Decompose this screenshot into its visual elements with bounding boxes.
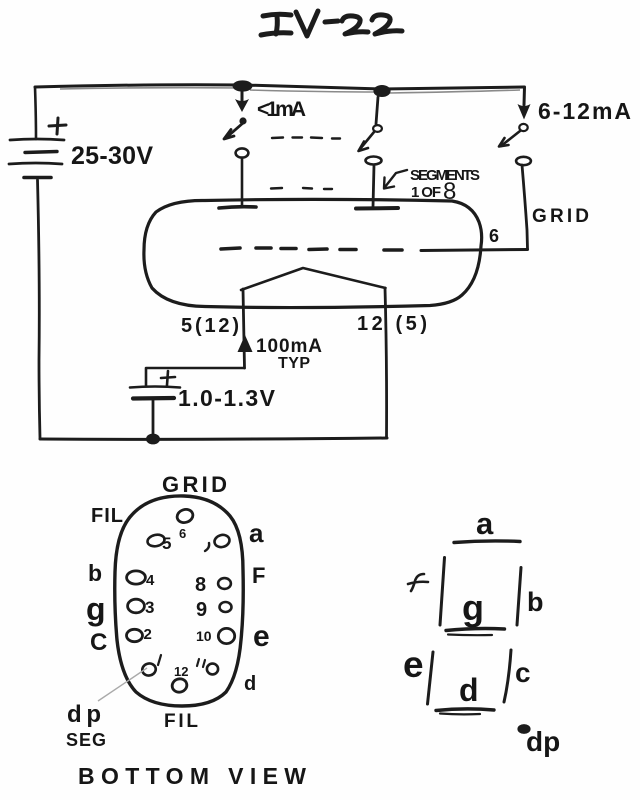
svg-text:4: 4 xyxy=(146,572,155,589)
svg-text:GRID: GRID xyxy=(532,206,589,227)
svg-text:GRID: GRID xyxy=(162,472,227,497)
svg-text:c: c xyxy=(515,657,531,688)
wire: segment pin into tube xyxy=(373,165,374,207)
svg-text:FIL: FIL xyxy=(91,505,123,527)
wire: left vertical from battery - down to bottom bus xyxy=(38,180,41,438)
terminal: anode pin top circle xyxy=(236,148,249,157)
grid mesh dashed line in tube xyxy=(221,248,402,250)
svg-text:dp: dp xyxy=(67,701,101,728)
wire: bottom bus xyxy=(40,438,387,439)
pin 11 circle xyxy=(207,664,218,675)
socket oval bottom view xyxy=(115,496,244,706)
segment e bar xyxy=(428,652,434,704)
svg-text:dp: dp xyxy=(526,726,560,757)
svg-text:5(12): 5(12) xyxy=(181,315,239,337)
battery B2 plate long xyxy=(130,387,180,388)
wire: filament pin 12 down xyxy=(385,288,387,438)
svg-text:<1mA: <1mA xyxy=(257,98,306,121)
pin 11 ticks xyxy=(197,659,199,666)
wire: left vertical from top bus to battery + plate xyxy=(35,87,36,139)
pin 7 circle xyxy=(213,533,231,549)
wire: top bus from battery + to grid switch xyxy=(35,85,524,89)
filament V xyxy=(241,268,386,290)
switch S2 pivot circle xyxy=(373,125,382,132)
svg-text:12: 12 xyxy=(174,664,188,679)
pin 3 circle xyxy=(128,599,145,613)
switch S2 blade with arrowhead xyxy=(360,132,374,149)
svg-text:g: g xyxy=(86,591,106,627)
segment a bar xyxy=(454,541,520,543)
svg-text:6-12mA: 6-12mA xyxy=(538,98,631,124)
tube envelope IV-22 xyxy=(144,199,482,307)
svg-text:F: F xyxy=(252,563,265,588)
svg-text:e: e xyxy=(403,644,424,685)
dp dot xyxy=(517,724,530,734)
svg-text:g: g xyxy=(462,587,484,628)
svg-text:1 OF: 1 OF xyxy=(411,184,441,201)
pin 12 circle xyxy=(171,677,189,694)
segment d bar xyxy=(436,709,494,711)
svg-text:FIL: FIL xyxy=(164,711,198,732)
switch S3 blade with arrowhead xyxy=(501,131,520,146)
terminal: segment pin top ellipse xyxy=(366,157,382,165)
battery B1 plate short xyxy=(25,152,57,153)
svg-text:d: d xyxy=(244,673,256,695)
svg-text:1.0-1.3V: 1.0-1.3V xyxy=(178,385,276,411)
segment c bar xyxy=(504,650,511,702)
node: junction on top bus at anode switch xyxy=(233,80,253,91)
label f seg xyxy=(408,574,428,591)
dashed row lower (other segments) xyxy=(271,188,332,189)
current arrow 100mA xyxy=(238,335,253,352)
svg-text:a: a xyxy=(476,506,494,541)
svg-text:12 (5): 12 (5) xyxy=(357,313,427,335)
anode segment bar 1 xyxy=(219,207,256,208)
pin 5 circle xyxy=(146,533,165,548)
svg-text:BOTTOM VIEW: BOTTOM VIEW xyxy=(78,763,306,789)
svg-text:10: 10 xyxy=(196,628,212,644)
svg-text:8: 8 xyxy=(443,178,456,205)
switch S3 pivot circle xyxy=(519,124,527,131)
svg-text:2: 2 xyxy=(144,626,152,643)
battery B1 plate long xyxy=(9,163,62,164)
battery B2 plus xyxy=(161,371,175,385)
pin 1 circle xyxy=(141,662,157,677)
svg-text:9: 9 xyxy=(196,599,207,621)
wire: anode pin into tube xyxy=(241,158,244,206)
pointer line dp to pin 1 xyxy=(98,668,147,701)
svg-text:6: 6 xyxy=(179,526,186,541)
pin 6 circle xyxy=(175,507,194,524)
segment f bar xyxy=(440,558,445,626)
svg-text:5: 5 xyxy=(162,534,171,553)
pin 8 circle xyxy=(218,578,231,589)
node: junction on top bus at segment switch xyxy=(373,85,390,97)
switch S1 blade with arrowhead xyxy=(227,123,243,137)
svg-text:e: e xyxy=(253,620,270,653)
battery B1 plate short bottom xyxy=(24,176,51,180)
wire: battery B2 - to bottom bus xyxy=(152,400,155,438)
battery B1 plate long top xyxy=(10,139,64,140)
svg-text:SEG: SEG xyxy=(66,730,106,750)
svg-text:a: a xyxy=(249,518,264,548)
switch S2 wire down xyxy=(376,97,378,124)
title IV-22 xyxy=(261,11,402,36)
svg-text:b: b xyxy=(88,560,102,586)
pin 2 circle xyxy=(127,629,143,641)
svg-text:TYP: TYP xyxy=(278,355,310,372)
switch S1 pivot dot xyxy=(239,117,246,124)
svg-text:d: d xyxy=(459,672,479,708)
wire: grid wire down right side xyxy=(522,165,528,249)
pin 7 tick xyxy=(205,543,209,551)
wire: filament pin 5 down xyxy=(243,289,245,368)
arrow to segment pin xyxy=(385,170,407,187)
pin 1 tick xyxy=(158,655,161,665)
dashed row upper (other segments) xyxy=(272,138,340,139)
svg-text:100mA: 100mA xyxy=(256,336,322,357)
pin 9 circle xyxy=(220,602,232,612)
switch S1 anode: arrow down xyxy=(241,91,244,104)
svg-text:8: 8 xyxy=(195,574,206,596)
segment g bar xyxy=(446,629,505,631)
pin 4 circle xyxy=(127,571,146,584)
svg-text:b: b xyxy=(527,587,544,617)
wire: pin5 to filament battery + xyxy=(146,368,245,386)
svg-text:25-30V: 25-30V xyxy=(71,142,153,170)
segment b bar xyxy=(517,568,521,626)
node: junction bottom bus xyxy=(146,434,160,445)
switch S3 arrowhead down xyxy=(518,104,531,120)
pin 10 circle xyxy=(218,628,234,643)
svg-text:3: 3 xyxy=(145,598,154,617)
battery B1 25-30V plus sign xyxy=(49,118,66,134)
svg-text:C: C xyxy=(90,629,107,656)
svg-text:6: 6 xyxy=(489,226,499,246)
wire: grid line to right edge xyxy=(421,250,528,251)
terminal: grid pin top ellipse xyxy=(516,157,531,165)
wire: top bus corner down to grid switch xyxy=(523,87,527,105)
anode segment bar 2 xyxy=(356,206,398,211)
battery B2 plate short thick xyxy=(133,396,174,401)
